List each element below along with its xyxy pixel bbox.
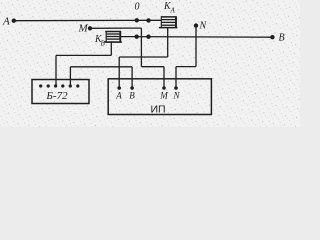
svg-text:М: М xyxy=(159,91,168,101)
node O right junction dot xyxy=(146,18,150,22)
wire M tap horizontal xyxy=(90,27,141,29)
wire KB stem down xyxy=(110,42,112,55)
wire A-line (reochord A to key KA) xyxy=(14,19,162,21)
instrument box IP xyxy=(108,79,211,115)
wire down into battery terminal 3 xyxy=(55,55,57,86)
IP terminal labels xyxy=(115,91,180,101)
wire battery to IP-B horizontal xyxy=(70,66,132,68)
node N terminal dot xyxy=(194,23,198,27)
node M terminal dot xyxy=(88,26,92,30)
node O left junction dot xyxy=(135,18,139,22)
wire B-line (key KB to point B) xyxy=(121,36,273,39)
svg-text:В: В xyxy=(279,33,285,44)
node A terminal dot xyxy=(12,19,16,23)
paper background xyxy=(0,0,300,127)
battery box B-72 xyxy=(32,80,89,104)
svg-text:ИП: ИП xyxy=(150,104,165,116)
wire KA to IP-A horizontal xyxy=(119,56,168,58)
wire N down into IP terminal N xyxy=(175,67,177,88)
wire KA stem down xyxy=(167,28,169,57)
key KB (plug key symbol) xyxy=(104,31,122,42)
svg-text:N: N xyxy=(199,21,208,32)
svg-text:В: В xyxy=(101,40,106,48)
wire M horizontal to IP xyxy=(141,66,164,68)
svg-text:В: В xyxy=(129,91,135,101)
IP terminal dot B xyxy=(130,86,134,90)
junction dot on B-line left xyxy=(135,34,139,38)
wire battery terminal 5 up xyxy=(69,67,71,86)
svg-text:А: А xyxy=(115,91,122,101)
svg-text:N: N xyxy=(172,91,180,101)
node B terminal dot xyxy=(270,35,274,39)
IP terminal dot A xyxy=(117,86,121,90)
battery terminal dots xyxy=(39,84,79,87)
wire N vertical xyxy=(195,26,197,67)
junction dot on B-line right xyxy=(146,35,150,39)
wire down into IP terminal A xyxy=(118,57,120,88)
key KA (plug key symbol) xyxy=(159,16,178,27)
svg-text:0: 0 xyxy=(135,2,140,13)
svg-text:А: А xyxy=(2,16,10,28)
wire KB to battery horizontal xyxy=(56,54,111,56)
wire M down into IP terminal M xyxy=(163,67,165,88)
wire N horizontal jog xyxy=(176,66,196,68)
svg-text:А: А xyxy=(170,7,176,15)
IP terminal dot M xyxy=(162,86,166,90)
wire down into IP terminal B xyxy=(131,67,133,88)
IP terminal dot N xyxy=(174,86,178,90)
wire M vertical drop xyxy=(140,28,142,67)
svg-text:М: М xyxy=(78,23,89,35)
svg-text:Б-72: Б-72 xyxy=(45,90,68,102)
